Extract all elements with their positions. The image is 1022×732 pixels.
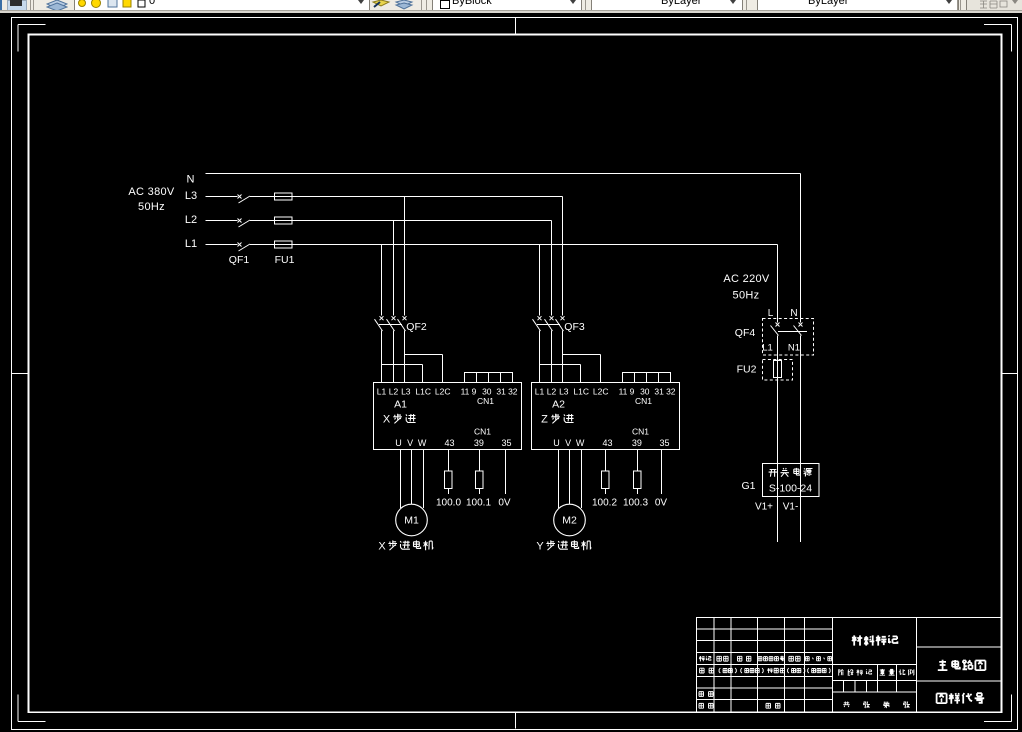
- svg-text:FU2: FU2: [737, 364, 757, 376]
- svg-text:39: 39: [474, 438, 484, 448]
- svg-text:CN1: CN1: [635, 396, 652, 406]
- svg-text:43: 43: [444, 438, 454, 448]
- wire L3 drop to QF2 pole3: [404, 197, 406, 316]
- node L1 label: [185, 238, 197, 250]
- border centering tick left: [12, 373, 29, 375]
- svg-text:L1: L1: [535, 387, 545, 397]
- toolbar: [0, 0, 2, 10]
- title block: [697, 618, 1002, 713]
- title block row 审核: [699, 692, 713, 697]
- title block row 工艺 批准: [699, 703, 780, 708]
- svg-text:N: N: [790, 308, 797, 319]
- svg-text:S-100-24: S-100-24: [769, 483, 812, 495]
- svg-text:U: U: [553, 438, 560, 448]
- svg-text:L3: L3: [559, 387, 569, 397]
- svg-text:0V: 0V: [655, 498, 668, 509]
- motor M1: [396, 504, 428, 536]
- svg-text:100.2: 100.2: [592, 498, 617, 509]
- svg-text:32: 32: [666, 387, 676, 397]
- border corner mark top-right: [984, 25, 1012, 52]
- svg-text:L1C: L1C: [415, 387, 431, 397]
- connector CN1 A1 top comb: [465, 373, 513, 383]
- breaker QF1: [229, 195, 250, 267]
- stepper driver A2: [532, 383, 680, 450]
- svg-text:L: L: [768, 308, 774, 319]
- fuse FU2: [737, 360, 793, 381]
- svg-text:X: X: [383, 414, 391, 426]
- svg-text:N1: N1: [788, 343, 800, 354]
- power supply G1 开关电源 S-100-24: [741, 464, 819, 497]
- breaker QF4: [735, 319, 814, 356]
- border corner mark top-left: [18, 25, 46, 52]
- node N label (220V): [790, 308, 797, 319]
- svg-text:L1C: L1C: [573, 387, 589, 397]
- svg-text:L1: L1: [377, 387, 387, 397]
- svg-text:W: W: [418, 438, 427, 448]
- wire QF2 to driver A1 inputs: [382, 331, 443, 383]
- svg-text:L3: L3: [401, 387, 411, 397]
- terminal 100.2 on A2 pin 43: [592, 450, 617, 509]
- svg-text:0V: 0V: [498, 498, 511, 509]
- border corner mark bottom-right: [984, 695, 1012, 722]
- svg-text:43: 43: [602, 438, 612, 448]
- driver A1 type label X步进: [383, 414, 416, 426]
- title block label 共 张 第 张: [843, 702, 910, 709]
- svg-text:CN1: CN1: [632, 427, 649, 437]
- terminal 100.1 on A1 pin 39: [466, 450, 491, 509]
- label AC 380V 50Hz source: [128, 186, 174, 213]
- svg-text:M2: M2: [562, 515, 577, 527]
- title block label 阶段标记 重量 比例: [839, 669, 914, 675]
- svg-text:11: 11: [461, 387, 470, 397]
- wire driver A1 U V W to motor M1: [401, 450, 424, 509]
- svg-text:Z: Z: [541, 414, 548, 426]
- svg-text:L1: L1: [762, 343, 773, 354]
- svg-text:X: X: [378, 541, 386, 553]
- label V1+ output: [755, 502, 773, 513]
- svg-text:M1: M1: [404, 515, 419, 527]
- wire L3 bus: [206, 197, 563, 316]
- node L label: [768, 308, 774, 319]
- svg-text:N: N: [187, 174, 195, 186]
- svg-text:V: V: [407, 438, 413, 448]
- title block label 图样代号: [937, 693, 985, 704]
- fuse FU1: [275, 193, 295, 266]
- stepper driver A1: [374, 383, 522, 450]
- wire V1- down: [800, 497, 802, 543]
- svg-text:FU1: FU1: [275, 254, 295, 266]
- connector CN1 A2 top comb: [623, 373, 671, 383]
- svg-text:L1: L1: [185, 238, 197, 250]
- svg-text:A1: A1: [394, 399, 407, 411]
- wire FU2 down to G1: [777, 378, 779, 464]
- svg-text:U: U: [395, 438, 402, 448]
- svg-text:CN1: CN1: [477, 396, 494, 406]
- wire L2 bus: [206, 221, 552, 316]
- svg-text:31: 31: [654, 387, 664, 397]
- svg-text:L2: L2: [389, 387, 399, 397]
- svg-text:35: 35: [501, 438, 511, 448]
- title block label 主电路图: [938, 660, 986, 670]
- border corner mark bottom-left: [18, 695, 46, 722]
- wire L1 bus: [206, 245, 778, 323]
- wire 0V on A1 pin 35: [498, 450, 511, 509]
- wire N bus: [206, 174, 801, 323]
- svg-text:QF4: QF4: [735, 327, 756, 339]
- border centering tick bottom: [515, 712, 517, 729]
- title block row 标记 处数 分区 更改文件号 签名 年、月、日: [699, 656, 832, 661]
- svg-text:39: 39: [632, 438, 642, 448]
- svg-text:V1+: V1+: [755, 502, 773, 513]
- wire QF4 N1 down to G1: [800, 336, 802, 464]
- label AC 220V 50Hz source: [723, 273, 769, 302]
- wire QF3 to driver A2 inputs: [540, 331, 601, 383]
- svg-text:QF3: QF3: [564, 321, 585, 333]
- node L2 label: [185, 214, 197, 226]
- svg-text:G1: G1: [741, 480, 755, 492]
- svg-text:CN1: CN1: [474, 427, 491, 437]
- svg-text:L2: L2: [547, 387, 557, 397]
- svg-text:L2C: L2C: [435, 387, 451, 397]
- label V1- output: [783, 502, 799, 513]
- driver A2 type label Z步进: [541, 414, 573, 426]
- svg-text:31: 31: [496, 387, 506, 397]
- svg-text:A2: A2: [552, 399, 565, 411]
- wire driver A2 U V W to motor M2: [559, 450, 582, 509]
- breaker QF3: [533, 316, 585, 333]
- border centering tick right: [1002, 373, 1018, 375]
- terminal 100.3 on A2 pin 39: [623, 450, 648, 509]
- svg-text:L2: L2: [185, 214, 197, 226]
- label X步进电机: [378, 540, 433, 552]
- svg-text:L2C: L2C: [593, 387, 609, 397]
- svg-text:9: 9: [630, 387, 635, 397]
- svg-text:AC 220V: AC 220V: [723, 273, 769, 285]
- title block label 材料标记: [852, 635, 898, 645]
- svg-text:100.1: 100.1: [466, 498, 491, 509]
- svg-text:QF2: QF2: [406, 321, 427, 333]
- svg-text:9: 9: [472, 387, 477, 397]
- svg-text:100.3: 100.3: [623, 498, 648, 509]
- terminal 100.0 on A1 pin 43: [436, 450, 461, 509]
- wire V1+ down: [777, 497, 779, 543]
- node N label: [187, 174, 195, 186]
- border centering tick top: [515, 18, 517, 35]
- motor M2: [554, 504, 586, 536]
- wire L1 drop to QF2 pole1: [381, 245, 383, 316]
- svg-text:100.0: 100.0: [436, 498, 461, 509]
- svg-text:32: 32: [508, 387, 518, 397]
- wire 0V on A2 pin 35: [655, 450, 668, 509]
- label Y步进电机: [536, 540, 591, 552]
- title block row 设计 (签名) (年月日) 标准化 (签名) (年月日): [700, 668, 831, 673]
- svg-text:V: V: [565, 438, 571, 448]
- svg-text:QF1: QF1: [229, 254, 250, 266]
- breaker QF2: [375, 316, 427, 333]
- svg-text:35: 35: [659, 438, 669, 448]
- svg-text:50Hz: 50Hz: [138, 201, 165, 213]
- svg-text:AC 380V: AC 380V: [128, 186, 174, 198]
- wire L2 drop to QF2 pole2: [393, 221, 395, 316]
- svg-text:W: W: [576, 438, 585, 448]
- wire QF4 L1 down to FU2: [777, 336, 779, 361]
- svg-text:11: 11: [619, 387, 628, 397]
- wire L1 drop to QF3 pole1: [539, 245, 541, 316]
- svg-text:Y: Y: [536, 541, 544, 553]
- node L3 label: [185, 190, 197, 202]
- svg-text:50Hz: 50Hz: [733, 290, 760, 302]
- svg-text:L3: L3: [185, 190, 197, 202]
- wire L2 drop to QF3 pole2: [551, 221, 553, 316]
- svg-text:30: 30: [482, 387, 492, 397]
- svg-text:V1-: V1-: [783, 502, 799, 513]
- svg-text:30: 30: [640, 387, 650, 397]
